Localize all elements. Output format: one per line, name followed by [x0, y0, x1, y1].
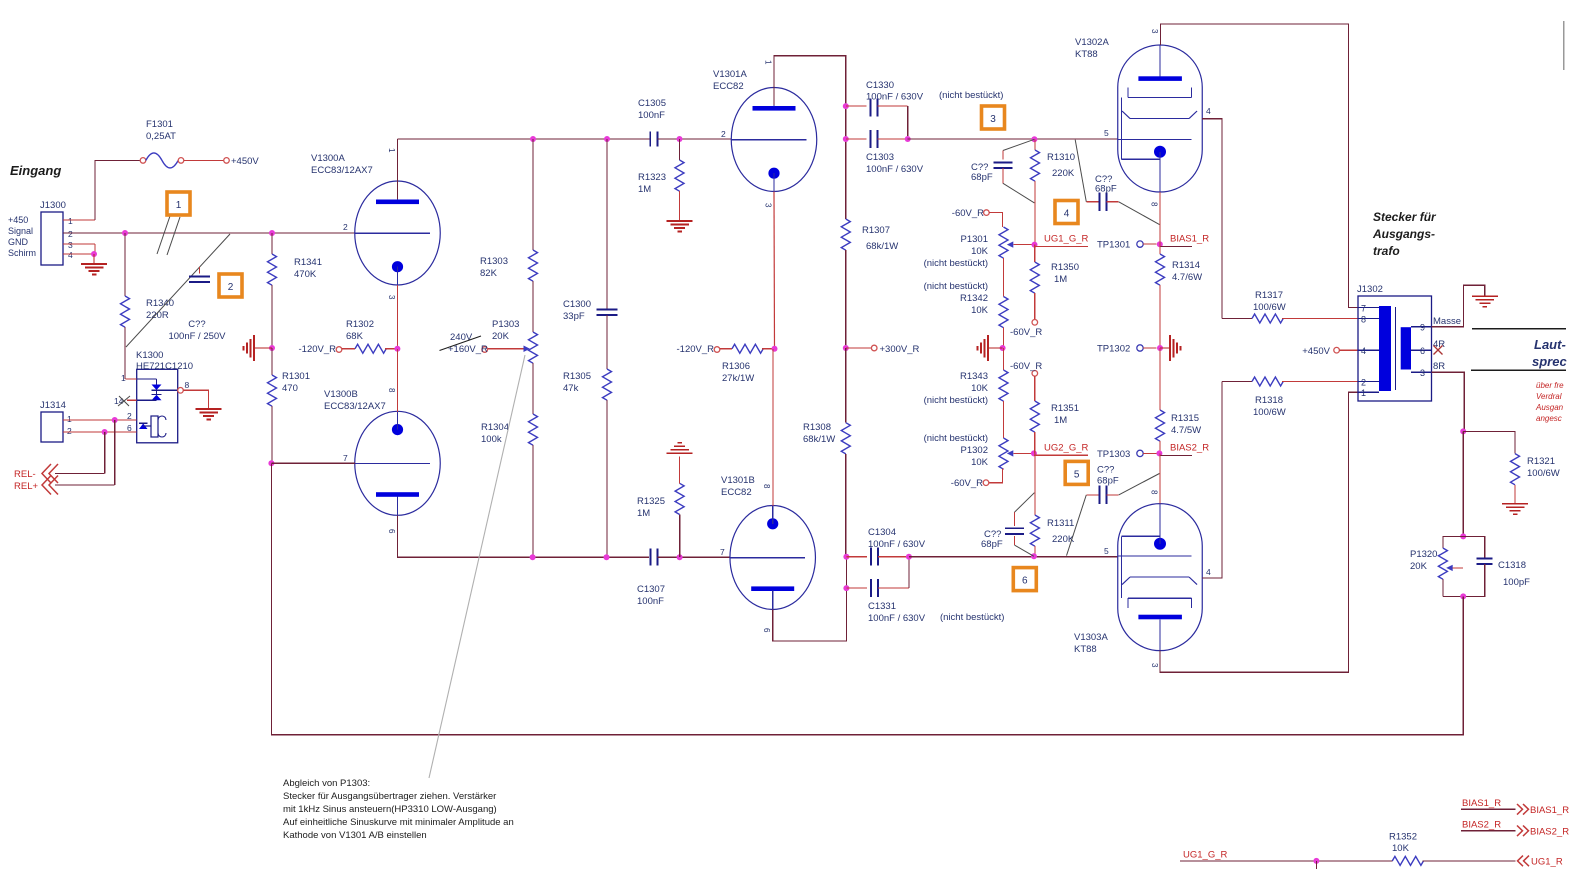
svg-text:REL-: REL-	[14, 469, 36, 480]
svg-text:über fre: über fre	[1536, 381, 1564, 390]
junction J1300 pin4	[91, 251, 97, 257]
capacitor C1331	[846, 559, 925, 624]
capacitor C1307	[637, 549, 665, 607]
svg-text:100/6W: 100/6W	[1253, 407, 1286, 418]
net label REL+	[14, 476, 115, 495]
svg-text:100nF / 630V: 100nF / 630V	[868, 613, 926, 624]
testpoint TP1301	[1097, 240, 1157, 251]
resistor R1317	[1222, 290, 1358, 323]
svg-text:(nicht bestückt): (nicht bestückt)	[924, 281, 988, 292]
svg-text:J1314: J1314	[40, 400, 66, 411]
svg-text:10K: 10K	[971, 383, 989, 394]
svg-text:Verdral: Verdral	[1536, 392, 1562, 401]
sheet edge mark	[1563, 21, 1565, 70]
svg-text:7: 7	[720, 547, 725, 557]
svg-text:R1323: R1323	[638, 172, 666, 183]
net 8R to speaker	[1432, 361, 1465, 431]
potentiometer P1301 (nicht bestueckt)	[924, 227, 1035, 297]
terminal -60V_R (P1301 top)	[952, 208, 1003, 227]
svg-text:100/6W: 100/6W	[1253, 302, 1286, 313]
svg-text:-60V_R: -60V_R	[952, 208, 984, 219]
svg-text:+450V: +450V	[231, 156, 259, 167]
junction 8R/R1321	[1460, 428, 1466, 434]
junction R1311 bottom	[1031, 553, 1037, 559]
svg-text:C1304: C1304	[868, 527, 896, 538]
svg-text:-60V_R: -60V_R	[1010, 327, 1042, 338]
svg-text:2: 2	[1361, 378, 1366, 388]
speaker line 8R	[1471, 369, 1566, 371]
resistor R1314	[1156, 244, 1203, 348]
svg-text:7: 7	[1361, 304, 1366, 314]
wire K1300 pin8 to ground	[183, 390, 208, 409]
resistor R1302	[342, 319, 397, 353]
junction R1323 top	[677, 136, 683, 142]
svg-text:UG2_G_R: UG2_G_R	[1044, 442, 1088, 453]
resistor R1308	[803, 348, 850, 557]
svg-text:Kathode von V1301 A/B einstell: Kathode von V1301 A/B einstellen	[283, 830, 427, 841]
wire V1300 cathodes link	[396, 349, 398, 412]
svg-text:1: 1	[68, 216, 73, 226]
svg-text:3: 3	[68, 240, 73, 250]
wire J1300 pin1 to fuse	[95, 160, 140, 220]
svg-text:20K: 20K	[492, 331, 510, 342]
capacitor C1300	[563, 139, 618, 322]
svg-text:V1301B: V1301B	[721, 475, 755, 486]
svg-text:TP1303: TP1303	[1097, 449, 1130, 460]
svg-text:27k/1W: 27k/1W	[722, 373, 754, 384]
junction UG1 bottom	[1313, 858, 1319, 864]
testpoint TP1302	[1097, 344, 1157, 355]
svg-text:R1343: R1343	[960, 371, 988, 382]
svg-text:(nicht bestückt): (nicht bestückt)	[924, 258, 988, 269]
connector J1302 with output transformer	[1357, 284, 1432, 401]
svg-text:20K: 20K	[1410, 561, 1428, 572]
svg-text:68k/1W: 68k/1W	[866, 241, 898, 252]
terminal +300V_R	[843, 344, 920, 355]
connector J1314	[40, 400, 137, 442]
triode V1300B	[324, 388, 440, 534]
ground above R1325 (inverted)	[667, 452, 693, 454]
svg-text:10K: 10K	[1392, 843, 1410, 854]
svg-text:6: 6	[1420, 346, 1425, 356]
svg-text:R1304: R1304	[481, 422, 509, 433]
svg-text:TP1302: TP1302	[1097, 344, 1130, 355]
svg-text:3: 3	[1150, 663, 1159, 668]
svg-text:P1320: P1320	[1410, 549, 1437, 560]
callout box 6	[1013, 568, 1036, 591]
svg-text:8R: 8R	[1433, 361, 1445, 372]
svg-text:P1302: P1302	[961, 445, 988, 456]
svg-text:Ausgan: Ausgan	[1535, 403, 1564, 412]
wire feedback vertical	[270, 463, 272, 734]
svg-text:5: 5	[1104, 546, 1109, 556]
resistor R1352	[1389, 832, 1516, 866]
svg-text:2: 2	[228, 282, 234, 293]
svg-text:470: 470	[282, 383, 298, 394]
svg-text:REL+: REL+	[14, 481, 38, 492]
wire top row stage1	[397, 138, 649, 140]
potentiometer P1302 (nicht bestueckt)	[924, 433, 1034, 469]
ground left of bias chain	[978, 335, 1003, 361]
capacitor C?? 68pF (lower right)	[1067, 465, 1160, 556]
svg-text:4.7/6W: 4.7/6W	[1172, 272, 1202, 283]
svg-text:UG1_R: UG1_R	[1531, 857, 1563, 868]
capacitor C1303	[846, 130, 924, 175]
net 4R (not connected)	[1433, 339, 1445, 355]
resistor R1305	[563, 315, 612, 557]
net label -120V_R (stage2)	[677, 344, 720, 355]
svg-text:Stecker für: Stecker für	[1373, 210, 1437, 224]
terminal P1303 wiper +160V_R	[440, 332, 489, 355]
svg-text:3: 3	[1420, 368, 1425, 378]
svg-text:68pF: 68pF	[971, 172, 993, 183]
wire V1301 cathodes link	[772, 349, 774, 506]
svg-text:R1303: R1303	[480, 256, 508, 267]
svg-text:UG1_G_R: UG1_G_R	[1183, 850, 1227, 861]
svg-text:BIAS1_R: BIAS1_R	[1530, 805, 1569, 816]
wire grid row to V1302A	[908, 138, 1118, 140]
svg-text:R1315: R1315	[1171, 413, 1199, 424]
svg-text:Laut-: Laut-	[1534, 337, 1566, 352]
svg-text:Stecker für Ausgangsübertrager: Stecker für Ausgangsübertrager ziehen. V…	[283, 791, 496, 802]
svg-text:R1306: R1306	[722, 361, 750, 372]
svg-text:ECC82: ECC82	[713, 81, 744, 92]
svg-text:82K: 82K	[480, 268, 498, 279]
svg-text:ECC82: ECC82	[721, 487, 752, 498]
capacitor C1305	[638, 98, 666, 147]
ground Masse	[1472, 295, 1498, 297]
svg-text:R1318: R1318	[1255, 395, 1283, 406]
svg-text:1: 1	[176, 200, 182, 211]
svg-text:UG1_G_R: UG1_G_R	[1044, 234, 1088, 245]
svg-text:1: 1	[121, 373, 126, 383]
junction V1300B grid node	[268, 460, 274, 466]
svg-text:3: 3	[387, 295, 396, 300]
svg-text:C1305: C1305	[638, 98, 666, 109]
svg-text:HE721C1210: HE721C1210	[136, 361, 193, 372]
svg-text:14: 14	[114, 396, 124, 406]
ground below R1321	[1502, 503, 1528, 505]
svg-text:47k: 47k	[563, 383, 579, 394]
svg-text:68pF: 68pF	[1095, 184, 1117, 195]
capacitor C?? 68pF (upper right)	[1075, 140, 1159, 225]
svg-text:trafo: trafo	[1373, 244, 1400, 258]
svg-text:3: 3	[764, 203, 773, 208]
resistor R1341	[268, 233, 323, 348]
junction R1310 top	[1031, 136, 1037, 142]
svg-text:R1342: R1342	[960, 293, 988, 304]
svg-text:2: 2	[721, 129, 726, 139]
capacitor C?? 68pF (lower left)	[981, 493, 1034, 557]
ground below R1323	[667, 220, 693, 222]
wire V1302A cathode down	[1159, 192, 1161, 244]
net label BIAS2_R	[1156, 443, 1209, 457]
tetrode V1302A KT88	[1075, 29, 1211, 207]
svg-text:+450V: +450V	[1302, 346, 1330, 357]
callout box 1	[167, 192, 190, 215]
svg-text:4: 4	[1361, 346, 1366, 356]
svg-text:R1305: R1305	[563, 371, 591, 382]
wire input signal row	[63, 232, 355, 234]
svg-text:+450: +450	[8, 215, 28, 225]
svg-text:GND: GND	[8, 237, 29, 247]
svg-text:R1301: R1301	[282, 371, 310, 382]
svg-text:C1331: C1331	[868, 601, 896, 612]
terminal +450V (J1302)	[1302, 346, 1358, 357]
svg-text:10K: 10K	[971, 457, 989, 468]
svg-text:240V: 240V	[450, 332, 473, 343]
svg-text:-60V_R: -60V_R	[951, 478, 983, 489]
svg-text:3: 3	[990, 114, 996, 125]
svg-text:R1321: R1321	[1527, 456, 1555, 467]
svg-text:100nF / 630V: 100nF / 630V	[866, 92, 924, 103]
wire V1300A plate to top row	[396, 139, 398, 199]
svg-text:V1302A: V1302A	[1075, 37, 1109, 48]
resistor R1340	[121, 233, 175, 379]
svg-text:R1307: R1307	[862, 225, 890, 236]
svg-text:8: 8	[1150, 490, 1159, 495]
svg-text:C1300: C1300	[563, 299, 591, 310]
junction P1320 bottom	[1460, 593, 1466, 599]
svg-text:3: 3	[1150, 29, 1159, 34]
svg-text:1M: 1M	[1054, 415, 1067, 426]
svg-text:Schirm: Schirm	[8, 248, 36, 258]
svg-text:100nF / 630V: 100nF / 630V	[868, 539, 926, 550]
resistor R1343 (nicht bestueckt)	[924, 348, 1008, 438]
svg-text:R1325: R1325	[637, 496, 665, 507]
svg-text:R1352: R1352	[1389, 832, 1417, 843]
ground J1300	[81, 254, 107, 275]
svg-text:Abgleich von P1303:: Abgleich von P1303:	[283, 778, 370, 789]
K1300 pin8 terminal	[178, 380, 190, 393]
svg-text:1M: 1M	[1054, 274, 1067, 285]
svg-text:5: 5	[1074, 469, 1080, 480]
svg-text:100nF: 100nF	[638, 110, 665, 121]
resistor R1318	[1222, 377, 1358, 418]
svg-text:J1300: J1300	[40, 200, 66, 211]
resistor R1310	[1031, 139, 1076, 244]
svg-text:TP1301: TP1301	[1097, 240, 1130, 251]
svg-text:-120V_R: -120V_R	[677, 344, 715, 355]
wire V1301A cathode down	[773, 192, 776, 349]
svg-text:68pF: 68pF	[1097, 476, 1119, 487]
ground K1300 pin8	[196, 408, 222, 410]
svg-text:68pF: 68pF	[981, 539, 1003, 550]
svg-text:100k: 100k	[481, 434, 502, 445]
svg-text:F1301: F1301	[146, 119, 173, 130]
net label BIAS1_R	[1157, 234, 1209, 248]
capacitor C1318	[1463, 536, 1530, 596]
junction top row x607	[604, 136, 610, 142]
svg-text:Masse: Masse	[1433, 316, 1461, 327]
svg-text:K1300: K1300	[136, 350, 163, 361]
potentiometer P1320	[1410, 536, 1463, 596]
net stub UG1_R	[1518, 856, 1563, 868]
capacitor C?? 68pF (upper left)	[971, 139, 1034, 203]
wire feedback	[271, 596, 1463, 734]
svg-text:1: 1	[67, 414, 72, 424]
connector J1300	[8, 200, 95, 265]
callout box 3	[982, 106, 1005, 129]
capacitor C?? 100nF/250V (nicht bestueckt)	[126, 234, 230, 347]
svg-text:8: 8	[762, 484, 771, 489]
wire 8R down to P1320	[1462, 431, 1464, 536]
wire C1305 to V1301A grid	[657, 138, 731, 140]
svg-text:5: 5	[1104, 128, 1109, 138]
svg-text:sprec: sprec	[1532, 354, 1567, 369]
triode V1301A	[713, 60, 817, 208]
svg-text:2: 2	[67, 426, 72, 436]
resistor R1301	[268, 348, 311, 463]
svg-text:BIAS2_R: BIAS2_R	[1170, 443, 1209, 454]
svg-text:(nicht bestückt): (nicht bestückt)	[924, 433, 988, 444]
svg-text:BIAS2_R: BIAS2_R	[1530, 827, 1569, 838]
svg-text:C1318: C1318	[1498, 560, 1526, 571]
svg-text:V1301A: V1301A	[713, 69, 747, 80]
wire REL- to K1300 pin6 row	[104, 432, 106, 474]
svg-text:V1300B: V1300B	[324, 389, 358, 400]
svg-text:C1307: C1307	[637, 584, 665, 595]
capacitor C1330	[846, 80, 924, 136]
wire V1301B plate to C1304 node	[773, 557, 847, 641]
svg-text:2: 2	[68, 229, 73, 239]
svg-text:C1330: C1330	[866, 80, 894, 91]
resistor R1325	[637, 457, 684, 558]
svg-text:0,25AT: 0,25AT	[146, 131, 176, 142]
ground right of TP1302	[1160, 335, 1181, 361]
net label -120V_R (stage1)	[299, 344, 342, 355]
wire bottom row stage1	[533, 556, 649, 558]
svg-text:ECC83/12AX7: ECC83/12AX7	[324, 401, 386, 412]
svg-text:8: 8	[387, 388, 396, 393]
wire V1301A plate up and over	[774, 56, 846, 139]
svg-text:(nicht bestückt): (nicht bestückt)	[924, 395, 988, 406]
junction bottom row x607	[604, 554, 610, 560]
svg-text:10K: 10K	[971, 305, 989, 316]
ground left of R1341 node	[244, 335, 273, 361]
tetrode V1303A KT88	[1074, 490, 1211, 668]
svg-text:R1341: R1341	[294, 257, 322, 268]
junction J1314 pin2 row	[102, 429, 108, 435]
triode V1301B	[720, 475, 815, 633]
svg-text:-60V_R: -60V_R	[1010, 361, 1042, 372]
capacitor C1304	[846, 527, 925, 566]
resistor R1303	[480, 139, 538, 281]
wire V1300B grid	[271, 462, 355, 464]
junction top row x533	[530, 136, 536, 142]
resistor R1323	[638, 139, 684, 221]
svg-text:Ausgangs-: Ausgangs-	[1372, 227, 1435, 241]
net label REL-	[14, 464, 105, 483]
junction R1325 bottom	[677, 554, 683, 560]
fuse F1301	[140, 119, 223, 168]
svg-text:V1300A: V1300A	[311, 153, 345, 164]
junction bottom row x533	[530, 554, 536, 560]
svg-text:(nicht bestückt): (nicht bestückt)	[939, 90, 1003, 101]
wire V1300A cathode down	[396, 285, 398, 349]
net stub BIAS1_R out	[1461, 798, 1569, 816]
resistor R1307	[841, 139, 898, 348]
svg-text:1: 1	[764, 60, 773, 65]
svg-text:4: 4	[68, 250, 73, 260]
svg-text:C1303: C1303	[866, 152, 894, 163]
terminal -60V_R (P1302 bottom)	[951, 469, 1003, 489]
wire J1300 pin3 to pin4 node	[94, 244, 96, 254]
svg-text:6: 6	[1022, 576, 1028, 587]
svg-text:angesc: angesc	[1536, 414, 1562, 423]
svg-text:KT88: KT88	[1075, 49, 1098, 60]
junction R1341/R1301 ground node	[269, 345, 275, 351]
svg-text:1: 1	[1361, 388, 1366, 398]
svg-text:100nF / 250V: 100nF / 250V	[168, 331, 226, 342]
wire REL+ to K1300 pin2 row	[114, 420, 116, 485]
wire C1307 to V1301B grid	[658, 556, 730, 558]
svg-text:P1301: P1301	[961, 234, 988, 245]
svg-text:68K: 68K	[346, 331, 364, 342]
svg-text:8: 8	[1361, 315, 1366, 325]
junction V1300 cathode node	[394, 346, 400, 352]
svg-text:P1303: P1303	[492, 319, 519, 330]
svg-text:(nicht bestückt): (nicht bestückt)	[940, 612, 1004, 623]
svg-text:7: 7	[343, 453, 348, 463]
resistor R1306	[720, 344, 775, 384]
junction input row x125	[122, 230, 128, 236]
svg-text:68k/1W: 68k/1W	[803, 434, 835, 445]
callout box 4	[1055, 201, 1078, 224]
net Masse	[1432, 285, 1485, 327]
svg-text:R1311: R1311	[1047, 518, 1074, 529]
potentiometer P1303	[488, 281, 538, 414]
svg-text:100pF: 100pF	[1503, 577, 1530, 588]
svg-text:4: 4	[1206, 106, 1211, 116]
svg-text:R1351: R1351	[1051, 403, 1079, 414]
svg-text:2: 2	[343, 222, 348, 232]
svg-text:33pF: 33pF	[563, 311, 585, 322]
junction V1301 cathode node	[772, 346, 778, 352]
callout box 5	[1065, 461, 1088, 484]
wire UG1 stub down	[1315, 861, 1317, 869]
svg-text:R1317: R1317	[1255, 290, 1283, 301]
wire V1303A cathode up	[1159, 453, 1161, 503]
svg-text:9: 9	[1420, 323, 1425, 333]
junction C1303 left	[843, 136, 849, 142]
svg-text:4.7/5W: 4.7/5W	[1171, 425, 1201, 436]
svg-text:BIAS1_R: BIAS1_R	[1462, 798, 1501, 809]
svg-text:100nF / 630V: 100nF / 630V	[866, 164, 924, 175]
svg-text:10K: 10K	[971, 246, 989, 257]
junction C1304 right	[906, 554, 912, 560]
optocoupler K1300	[114, 350, 193, 443]
resistor R1321	[1463, 431, 1560, 503]
svg-text:C??: C??	[1097, 465, 1114, 476]
junction P1320 top	[1460, 533, 1466, 539]
wire V1303A plate to J1302 pin1	[1160, 392, 1358, 672]
junction C1330 left	[843, 103, 849, 109]
svg-text:8: 8	[1150, 202, 1159, 207]
svg-text:J1302: J1302	[1357, 284, 1383, 295]
resistor R1311	[1030, 453, 1074, 556]
triode V1300A	[311, 148, 440, 300]
svg-text:R1302: R1302	[346, 319, 374, 330]
svg-text:KT88: KT88	[1074, 644, 1097, 655]
svg-text:BIAS1_R: BIAS1_R	[1170, 234, 1209, 245]
wire V1302A plate to J1302 pin7	[1160, 24, 1358, 308]
junction C1331 left	[843, 585, 849, 591]
svg-text:470K: 470K	[294, 269, 317, 280]
callout line to P1303	[429, 355, 525, 778]
svg-text:220R: 220R	[146, 310, 169, 321]
svg-text:ECC83/12AX7: ECC83/12AX7	[311, 165, 373, 176]
